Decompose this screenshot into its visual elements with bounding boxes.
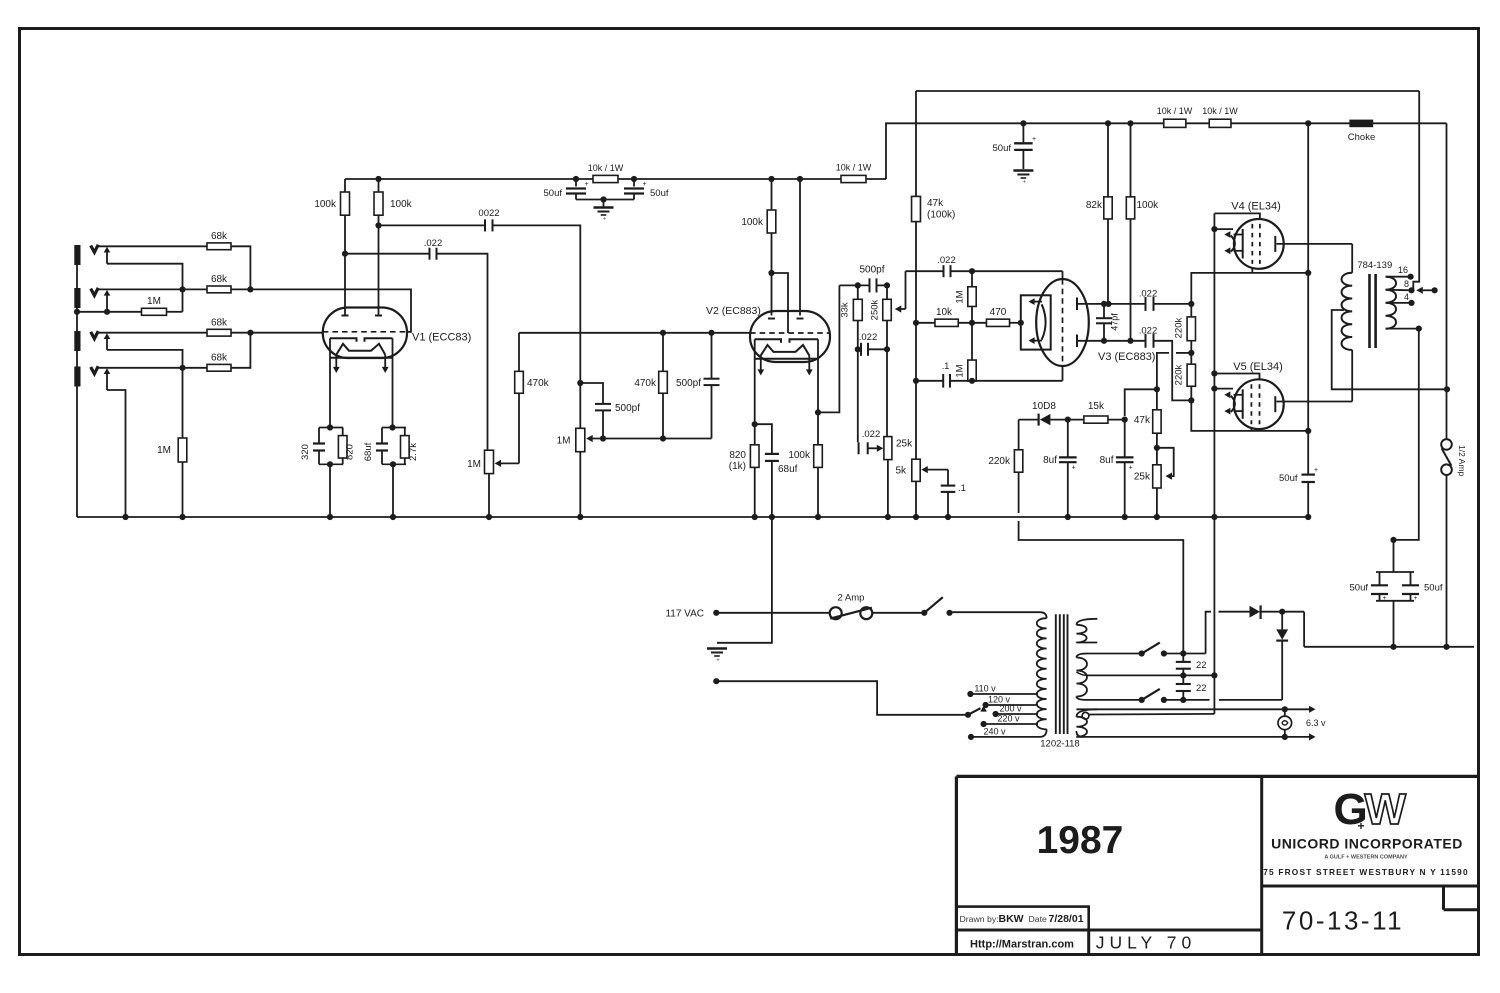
node R24 plate bbox=[1127, 338, 1133, 344]
wire V3b plate row bbox=[1077, 340, 1146, 342]
svg-text:100k: 100k bbox=[314, 199, 337, 210]
resistor R2 68k bbox=[207, 286, 231, 293]
OT core bbox=[1368, 274, 1371, 348]
V4 grid dashed lines bbox=[1251, 224, 1253, 264]
voltage selector arm bbox=[968, 708, 981, 715]
svg-text:0022: 0022 bbox=[478, 208, 499, 219]
PT heater center tap loop bbox=[1082, 712, 1089, 719]
V4 cathode bar bbox=[1242, 229, 1244, 259]
node V4 grid line end bbox=[1305, 270, 1311, 276]
node C20 bus end bbox=[1305, 514, 1311, 520]
tube V2 (EC883) envelope bbox=[750, 311, 830, 362]
resistor R8 100k V1b plate bbox=[378, 179, 380, 192]
svg-text:.022: .022 bbox=[1139, 289, 1158, 300]
node mains terminal L bbox=[713, 610, 719, 616]
PT bias winding bbox=[1076, 619, 1097, 625]
node feedback to .1 row bbox=[913, 378, 919, 384]
svg-text:.022: .022 bbox=[862, 429, 881, 440]
potentiometer VR4 25k middle bbox=[884, 437, 892, 460]
node VR6 bus bbox=[1154, 514, 1160, 520]
node jack2 row junction bbox=[179, 286, 185, 292]
V1 plate bars bbox=[342, 315, 349, 317]
capacitor C17 .022 to V5 grid bbox=[1145, 334, 1147, 348]
resistor R25 10k/1W rail dropper bbox=[841, 175, 866, 182]
svg-text:110 v: 110 v bbox=[974, 684, 996, 694]
node R16 bus bbox=[815, 514, 821, 520]
resistor R4 68k bbox=[207, 329, 231, 336]
wire volume II wiper row bbox=[586, 435, 592, 442]
node R13 wiper row bbox=[660, 435, 666, 441]
V1 bottom internal bar bbox=[330, 357, 393, 359]
wire screen feed column bbox=[1307, 123, 1309, 474]
svg-text:68k: 68k bbox=[211, 353, 228, 364]
svg-text:+: + bbox=[716, 658, 720, 664]
node 470 to V3 cathode box bbox=[1018, 320, 1024, 326]
V5 grid stub bbox=[1250, 428, 1252, 431]
svg-text:250k: 250k bbox=[870, 299, 881, 320]
PT tap 200v bbox=[993, 711, 999, 717]
wire ground column EL34 bbox=[1213, 213, 1215, 714]
svg-text:68k: 68k bbox=[211, 274, 228, 285]
wire VR5 wiper bbox=[921, 466, 927, 473]
node R23 rail bbox=[1105, 120, 1111, 126]
node bias 15k junction bbox=[1154, 386, 1160, 392]
svg-text:+: + bbox=[584, 181, 588, 188]
pilot lamp bbox=[1284, 709, 1286, 716]
wire V2b cathode lead bbox=[817, 339, 819, 445]
wire 33k bottom down bbox=[857, 349, 859, 442]
wire V1a cathode network to bus bbox=[319, 463, 343, 465]
svg-text:V4 (EL34): V4 (EL34) bbox=[1231, 201, 1281, 213]
svg-text:1987: 1987 bbox=[1037, 819, 1124, 862]
svg-text:784-139: 784-139 bbox=[1357, 260, 1392, 271]
node VR5 bus bbox=[913, 514, 919, 520]
node R13 grid row bbox=[660, 330, 666, 336]
svg-text:+: + bbox=[642, 181, 646, 188]
node VR3 bottom bbox=[884, 346, 890, 352]
V2 heater arrows bbox=[760, 356, 762, 371]
svg-text:33k: 33k bbox=[840, 302, 851, 318]
resistor R16 100k V2b cathode load bbox=[814, 445, 823, 468]
wire VR3 wiper from .022 node bbox=[905, 271, 907, 309]
svg-text:470: 470 bbox=[990, 307, 1007, 318]
resistor R11 10k/1W dropper bbox=[593, 175, 618, 182]
node VR2 bus bbox=[577, 514, 583, 520]
svg-text:16: 16 bbox=[1398, 265, 1408, 275]
wire V2b plate lead bbox=[799, 179, 801, 316]
node channel A junction bbox=[247, 286, 253, 292]
capacitor C9 .022 bbox=[860, 343, 862, 356]
svg-text:100k: 100k bbox=[390, 199, 413, 210]
node bias tap row C bbox=[1180, 697, 1186, 703]
node speaker common to caps bbox=[1390, 537, 1396, 543]
capacitor C12 .022 PI input bbox=[906, 270, 944, 272]
jack J4 switch arrow bbox=[104, 368, 111, 374]
node V1b coupling bbox=[375, 222, 381, 228]
OT primary bottom lead bbox=[1351, 350, 1353, 402]
wire V1b plate lead bbox=[378, 225, 380, 315]
drawn-by box bbox=[956, 907, 1088, 930]
svg-text:10k / 1W: 10k / 1W bbox=[1202, 106, 1238, 116]
svg-text:2 Amp: 2 Amp bbox=[838, 593, 865, 604]
node channel B junction bbox=[247, 330, 253, 336]
svg-text:5k: 5k bbox=[895, 466, 907, 477]
choke bbox=[1349, 120, 1373, 128]
wire mains to fuse bbox=[716, 612, 830, 614]
OT tap 4 bbox=[1386, 302, 1412, 304]
svg-text:+: + bbox=[1414, 595, 1418, 602]
svg-text:1202-118: 1202-118 bbox=[1040, 739, 1079, 750]
node 33k top bbox=[855, 282, 861, 288]
node VR4 bus bbox=[885, 514, 891, 520]
svg-text:820: 820 bbox=[345, 444, 356, 460]
resistor R12 470k channel B mixer bbox=[518, 333, 520, 372]
wire ground bus bbox=[77, 516, 1308, 518]
tube V1 (ECC83) envelope bbox=[323, 308, 407, 359]
potentiometer VR6 25k bias bbox=[1153, 465, 1161, 488]
node 220k middle bias node bbox=[1188, 350, 1194, 356]
resistor R24 100k V3b plate bbox=[1130, 123, 1132, 197]
capacitor C7 68uf V2a cathode bypass bbox=[755, 424, 772, 454]
fuse F2 2 Amp bbox=[830, 607, 842, 619]
capacitor C4 50uf filter bbox=[633, 179, 635, 187]
svg-text:70-13-11: 70-13-11 bbox=[1282, 906, 1404, 936]
V5 cathode arc bbox=[1231, 396, 1235, 412]
svg-text:.022: .022 bbox=[859, 332, 878, 343]
resistor R19 10k PI tail bbox=[916, 322, 935, 324]
capacitor C5 500pf bright bbox=[711, 333, 713, 379]
node ground column bus bbox=[1211, 514, 1217, 520]
wire jack2 to 68k R2 bbox=[98, 288, 207, 290]
wire R1 to channel A junction bbox=[231, 246, 250, 289]
resistor R9 820 V1a cathode bbox=[338, 436, 347, 458]
svg-text:82k: 82k bbox=[1086, 200, 1103, 211]
resistor R31 15k bias bbox=[1068, 419, 1084, 421]
resistor R28 220k V4 grid leak bbox=[1187, 317, 1195, 341]
V1 heater filament bbox=[336, 344, 385, 355]
capacitor C21 C22 50uf+50uf main filters bbox=[1393, 540, 1395, 572]
tube V4 (EL34) envelope bbox=[1234, 219, 1284, 269]
wire heater line bottom bbox=[1076, 736, 1311, 738]
svg-text:(100k): (100k) bbox=[927, 210, 955, 221]
V3 heater arrows bbox=[1033, 301, 1042, 303]
svg-text:+: + bbox=[603, 217, 607, 223]
svg-text:.1: .1 bbox=[942, 361, 950, 371]
wire R12 to volume I wiper bbox=[498, 462, 520, 464]
svg-text:50uf: 50uf bbox=[544, 188, 563, 199]
node V2b plate rail bbox=[797, 176, 803, 182]
svg-text:470k: 470k bbox=[527, 378, 550, 389]
V5 cathode bar bbox=[1242, 389, 1244, 419]
svg-text:1M: 1M bbox=[557, 436, 571, 447]
resistor R29 220k V5 grid leak bbox=[1187, 364, 1195, 386]
V5 grid dashed lines bbox=[1250, 384, 1252, 424]
svg-text:220k: 220k bbox=[1174, 317, 1185, 338]
svg-text:47k: 47k bbox=[1134, 415, 1151, 426]
svg-text:1M: 1M bbox=[955, 364, 966, 377]
wire V1a cathode lead bbox=[329, 338, 331, 427]
svg-text:25k: 25k bbox=[896, 439, 913, 450]
diode D2 HT rectifier upper bbox=[1219, 611, 1250, 613]
wire HT fuse column bbox=[1446, 123, 1448, 439]
node C14 bottom bbox=[1101, 338, 1107, 344]
resistor R14 100k V2a plate bbox=[771, 179, 773, 210]
wire V1a plate lead bbox=[344, 254, 346, 316]
V4 plate bar bbox=[1274, 236, 1276, 252]
svg-text:.022: .022 bbox=[1139, 326, 1158, 337]
resistor R17 33k bbox=[857, 285, 859, 299]
node R23 plate bbox=[1105, 301, 1111, 307]
node screen feed rail bbox=[1305, 120, 1311, 126]
switch SW2 HT top bbox=[1139, 650, 1145, 656]
svg-text:2.7k: 2.7k bbox=[408, 443, 419, 461]
potentiometer VR5 5k presence bbox=[912, 459, 920, 481]
capacitor C24 22 bias divider bbox=[1182, 675, 1184, 684]
wire V1b cathode network to bus bbox=[382, 463, 406, 465]
wire 50uf pair to ground bbox=[576, 199, 604, 201]
capacitor C23 22 bias divider bbox=[1182, 654, 1184, 662]
svg-text:Choke: Choke bbox=[1348, 132, 1375, 143]
svg-text:25k: 25k bbox=[1134, 472, 1151, 483]
jack J1 contact bar bbox=[74, 245, 80, 265]
node V5 grid junction bbox=[1188, 397, 1194, 403]
svg-text:100k: 100k bbox=[741, 217, 764, 228]
node R6 on bus bbox=[179, 514, 185, 520]
title block outline bbox=[956, 775, 1479, 778]
capacitor C19 8uf bias filter bbox=[1124, 420, 1126, 458]
jack J1 switch arrow bbox=[104, 247, 111, 253]
svg-text:47pf: 47pf bbox=[1110, 313, 1120, 331]
node rectifier output bbox=[1279, 609, 1285, 615]
svg-text:15k: 15k bbox=[1088, 401, 1105, 412]
V1 cathode brackets bbox=[330, 338, 357, 342]
node mains terminal N bbox=[713, 678, 719, 684]
V4 grid stub bbox=[1251, 268, 1253, 273]
capacitor C13 .1 PI second grid bbox=[916, 380, 943, 382]
node jack4 row junction bbox=[179, 365, 185, 371]
resistor R32 220k bias feed bbox=[1018, 420, 1020, 450]
svg-text:22: 22 bbox=[1196, 683, 1207, 694]
ground wire chassis bbox=[717, 517, 772, 643]
V2 cathode brackets bbox=[755, 339, 781, 343]
node 8uf2 junction bbox=[1122, 417, 1128, 423]
svg-text:100k: 100k bbox=[788, 450, 811, 461]
wire bias feed to transformer bbox=[1019, 521, 1184, 654]
node V1a cathode bbox=[327, 424, 333, 430]
node pilot bottom bbox=[1282, 734, 1288, 740]
V4 cathode top wire bbox=[1214, 213, 1260, 219]
jack J3 contact bar bbox=[74, 331, 80, 351]
wire feedback rail bbox=[916, 90, 1419, 92]
V5 cathode top wire bbox=[1214, 374, 1259, 380]
wire B+ row from rectifier bbox=[1304, 646, 1474, 648]
node R14 rail bbox=[768, 176, 774, 182]
V2 grid dashed line bbox=[750, 332, 830, 334]
wire V3 grid bottom stub bbox=[1062, 366, 1064, 381]
potentiometer VR3 250k treble bbox=[886, 285, 888, 299]
wire VR6 wiper loop bbox=[1157, 448, 1174, 476]
svg-text:.1: .1 bbox=[958, 483, 966, 494]
wire speaker common bbox=[1394, 329, 1419, 540]
switch SW1 mains bbox=[921, 610, 927, 616]
OT center tap wire bbox=[1332, 310, 1447, 389]
svg-text:BKW: BKW bbox=[999, 913, 1024, 925]
svg-text:500pf: 500pf bbox=[859, 265, 884, 276]
wire jack4 arrow to bus bbox=[107, 390, 126, 517]
wire R2 to channel A junction bbox=[231, 288, 250, 290]
capacitor C15 50uf rail filter bbox=[1022, 123, 1024, 143]
V3 plate bars bbox=[1076, 298, 1078, 311]
node ground column HT center tap bbox=[1211, 672, 1217, 678]
PT tap 120v bbox=[983, 702, 989, 708]
V3 cathode rectangle bbox=[1021, 295, 1051, 349]
wire V4 cathode side tap bbox=[1211, 226, 1217, 232]
capacitor C14 47pf bbox=[1103, 304, 1105, 318]
wire bias node to 47k bbox=[1176, 352, 1191, 354]
wire jack1 to 68k R1 bbox=[98, 245, 207, 247]
resistor R3 1M grid leak bbox=[77, 311, 142, 313]
wire V1b cathode lead bbox=[392, 338, 394, 427]
capacitor C11 .1 presence bbox=[947, 470, 949, 486]
potentiometer VR1 1M Volume I bbox=[485, 450, 494, 473]
node R8 rail bbox=[375, 176, 381, 182]
wire fuse to switch bbox=[872, 612, 924, 614]
resistor R20 470 PI cathode bbox=[986, 319, 1009, 326]
svg-text:50uf: 50uf bbox=[1424, 583, 1443, 594]
wire screen B+ rail bbox=[886, 123, 1447, 179]
resistor R6 1M channel B grid leak bbox=[178, 438, 187, 462]
node V5 grid line end bbox=[1305, 428, 1311, 434]
capacitor C10 .022 to middle pot bbox=[858, 442, 860, 454]
wire feedback takeoff bbox=[1413, 91, 1419, 290]
ground symbol C15 bbox=[1013, 169, 1033, 171]
svg-text:Date: Date bbox=[1029, 914, 1048, 924]
OT common tap bbox=[1386, 328, 1419, 330]
jack J2 tip contact V bbox=[91, 288, 99, 296]
svg-text:Drawn by:: Drawn by: bbox=[960, 914, 999, 924]
tube V3 (EC883) envelope bbox=[1036, 279, 1089, 366]
node 10k/470/1M junction bbox=[969, 320, 975, 326]
node jack2 arrow junction bbox=[104, 309, 110, 315]
resistor R30 47k bias bbox=[1153, 410, 1161, 433]
svg-text:8uf: 8uf bbox=[1100, 455, 1114, 466]
node V1a coupling bbox=[342, 251, 348, 257]
svg-text:75 FROST STREET WESTBURY N Y: 75 FROST STREET WESTBURY N Y 11590 bbox=[1263, 867, 1469, 877]
svg-text:.022: .022 bbox=[937, 255, 956, 266]
PT tap 240v wire bbox=[971, 736, 1040, 738]
wire R5 up to channel B junction bbox=[231, 333, 250, 368]
switch SW3 HT bottom bbox=[1139, 697, 1145, 703]
svg-text:V2 (EC883): V2 (EC883) bbox=[706, 305, 761, 317]
wire V2a plate to V2b grid bbox=[772, 273, 789, 333]
svg-text:220k: 220k bbox=[1174, 364, 1185, 385]
capacitor C6 500pf Volume II bbox=[580, 383, 603, 404]
capacitor C16 .022 to V4 grid bbox=[1145, 297, 1147, 311]
tube V5 (EL34) envelope bbox=[1234, 379, 1284, 429]
node V2b cathode follower out bbox=[815, 409, 821, 415]
jack J4 tip contact V bbox=[91, 366, 99, 374]
wire switch to PT primary bbox=[950, 611, 1041, 613]
wire V2a cathode lead bbox=[754, 339, 756, 445]
node C5 grid row bbox=[708, 330, 714, 336]
svg-text:(1k): (1k) bbox=[729, 461, 746, 472]
marstran row lines bbox=[956, 929, 1261, 932]
node center tap B+ feed bbox=[1444, 386, 1450, 392]
capacitor C8 500pf treble bbox=[839, 284, 869, 286]
svg-text:10D8: 10D8 bbox=[1032, 401, 1056, 412]
svg-text:68uf: 68uf bbox=[363, 442, 374, 461]
resistor R10 2.7k V1b cathode bbox=[401, 436, 410, 458]
svg-text:8: 8 bbox=[1404, 279, 1409, 289]
svg-text:10k / 1W: 10k / 1W bbox=[588, 163, 624, 173]
svg-text:10k / 1W: 10k / 1W bbox=[836, 163, 872, 173]
svg-text:+: + bbox=[1071, 465, 1075, 472]
wire V3a plate row bbox=[1077, 303, 1146, 305]
wire channel B to V1 grid bbox=[250, 332, 322, 334]
svg-text:10k: 10k bbox=[936, 307, 953, 318]
wire jack3 arrow down column bbox=[107, 350, 183, 438]
svg-text:+: + bbox=[1314, 467, 1318, 474]
svg-text:+: + bbox=[1383, 595, 1387, 602]
wire HT row A bbox=[1087, 653, 1142, 655]
node feedback to 10k row bbox=[913, 320, 919, 326]
resistor R23 82k V3a plate bbox=[1107, 123, 1109, 197]
svg-text:100k: 100k bbox=[1137, 200, 1160, 211]
node 50uf right rail bbox=[631, 176, 637, 182]
node C6 wiper row bbox=[600, 435, 606, 441]
wire rectifier output to B+ row bbox=[1303, 612, 1305, 647]
wire HT row C bbox=[1087, 699, 1142, 701]
jack J1 tip contact V bbox=[91, 245, 99, 253]
fuse F1 1/2 Amp bbox=[1441, 439, 1452, 450]
node C14 top bbox=[1101, 301, 1107, 307]
svg-text:1M: 1M bbox=[157, 445, 171, 456]
potentiometer VR2 1M Volume II bbox=[576, 428, 585, 451]
resistor R18 47k (100k) feedback bbox=[915, 91, 917, 196]
title block notch box bbox=[1442, 886, 1445, 910]
node C13 1M junction bbox=[969, 378, 975, 384]
wire row A riser to rectifier bbox=[1206, 612, 1211, 654]
resistor R15 820 (1k) V2a cathode bbox=[750, 445, 759, 468]
svg-text:Http://Marstran.com: Http://Marstran.com bbox=[970, 939, 1074, 951]
svg-text:+: + bbox=[1023, 180, 1027, 186]
wire R4 to channel B junction bbox=[231, 332, 250, 334]
svg-text:47k: 47k bbox=[927, 198, 944, 209]
svg-text:W: W bbox=[1365, 785, 1407, 834]
jack J3 switch arrow bbox=[104, 333, 111, 339]
OT tap 8 bbox=[1386, 289, 1412, 292]
wire jack1 arrow to 1M node bbox=[107, 264, 183, 312]
node C11 bus bbox=[945, 514, 951, 520]
svg-text:470k: 470k bbox=[634, 378, 657, 389]
PT heater winding bbox=[1076, 709, 1097, 716]
V2 bottom internal bar bbox=[755, 358, 818, 360]
wire jack4 to 68k R5 bbox=[98, 367, 207, 369]
node C18 bus bbox=[1065, 514, 1071, 520]
svg-text:68uf: 68uf bbox=[778, 464, 798, 475]
capacitor C3 50uf filter bbox=[575, 179, 577, 187]
PT tap 220v bbox=[981, 721, 987, 727]
resistor R5 68k bbox=[207, 364, 231, 371]
svg-text:200 v: 200 v bbox=[999, 704, 1022, 714]
wire V5 plate to OT bbox=[1277, 401, 1353, 403]
node VR1 bus bbox=[486, 514, 492, 520]
node C12 1M junction bbox=[969, 268, 975, 274]
node V1b cathode bus bbox=[390, 514, 396, 520]
resistor R13 470k channel A mixer bbox=[662, 333, 664, 372]
ground symbol chassis bbox=[707, 647, 727, 649]
svg-text:JULY 70: JULY 70 bbox=[1096, 933, 1197, 953]
